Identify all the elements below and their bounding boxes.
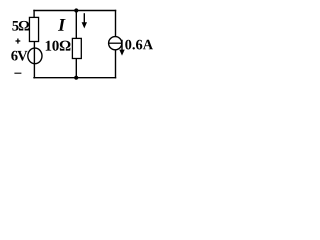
label minus	[14, 72, 21, 74]
resistor 10ohm box	[72, 38, 81, 58]
label 6V	[11, 51, 27, 61]
wire middle branch lower stub	[75, 59, 77, 78]
wire top	[33, 10, 116, 12]
node junction dot bottom	[74, 76, 78, 80]
wire bottom	[33, 77, 116, 79]
wire right branch lower stub	[115, 50, 117, 78]
label 10 ohm	[46, 41, 71, 51]
voltage source U1 circle	[28, 48, 42, 64]
wire right branch upper stub	[115, 10, 117, 37]
current source I1 circle	[109, 37, 122, 50]
current arrow I (down)	[82, 13, 87, 28]
label plus	[16, 39, 21, 44]
resistor 5ohm box	[29, 17, 38, 41]
wire left branch upper stub	[33, 10, 35, 18]
node junction dot top	[74, 8, 78, 12]
wire middle branch upper stub	[75, 11, 77, 39]
current arrow 0.6A (down)	[119, 40, 124, 56]
current source I1 bar	[108, 42, 122, 44]
label 5 ohm	[12, 21, 29, 31]
wire left branch lower (through voltage source)	[33, 42, 35, 79]
label 0.6A	[125, 40, 153, 50]
label current I	[58, 19, 66, 31]
